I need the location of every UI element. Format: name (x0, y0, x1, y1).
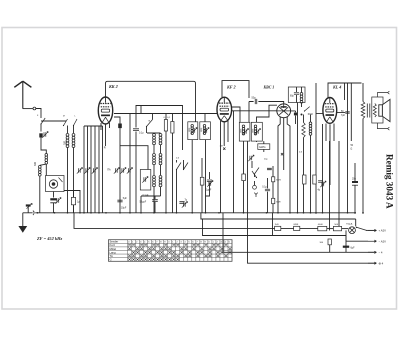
resistor 300 vertical (328, 239, 331, 245)
rail row3 y252.3 (223, 213, 375, 253)
row1 wire c (366, 229, 375, 231)
fixed capacitor antenna series (39, 133, 42, 137)
antenna A1 (14, 81, 31, 109)
wire GWG down (263, 141, 265, 152)
svg-text:⊕ 4: ⊕ 4 (379, 261, 384, 265)
svg-text:5000: 5000 (189, 128, 191, 132)
tube KBC1 (277, 104, 291, 118)
wire 60uF box stub (296, 87, 298, 103)
winding in output transformer (373, 104, 376, 118)
junction on ground bus x91 (90, 212, 92, 214)
trimmer capacitor CT4 (115, 168, 117, 172)
wire KK2 top rail (106, 81, 196, 122)
wire box side link (64, 191, 80, 214)
wire R2 leads (172, 114, 174, 214)
junction on ground bus x166 (165, 212, 167, 214)
capacitor 4uF (318, 181, 323, 183)
wire KL4 anode stubs (316, 112, 345, 115)
row2 wire (346, 240, 368, 242)
wire box to electrolytic (53, 192, 55, 198)
terminal -4 arrow (368, 251, 377, 253)
padder box (140, 170, 151, 191)
capacitor 0,1u det (265, 189, 270, 191)
wire KBC1 left bracket (257, 105, 278, 122)
capacitor speaker coupling (367, 104, 370, 118)
wire det v (252, 161, 255, 185)
switch S7 (252, 171, 257, 178)
tube KK2 (98, 97, 112, 124)
coil L1 antenna (38, 166, 41, 177)
junction on ground bus x290 (289, 212, 291, 214)
svg-text:R: R (104, 146, 106, 150)
wire r1100 leads (73, 190, 75, 213)
wire v x120 (114, 117, 120, 213)
svg-text:G: G (110, 258, 112, 262)
resistor GW8 on heater rail (294, 226, 300, 230)
wire 50u link (249, 102, 284, 105)
wire L5-L6 top link (147, 132, 161, 135)
coil L9 (153, 176, 156, 187)
wire L3 to ground bus (67, 148, 69, 214)
wire v x329 to row3 (329, 245, 331, 253)
wire S3 stub top (152, 114, 154, 120)
svg-text:6μF: 6μF (351, 247, 356, 249)
trimmer det (250, 156, 252, 160)
trimmer in T4 (256, 129, 258, 133)
svg-text:Lang: Lang (110, 250, 116, 254)
Y arrow under disc (254, 193, 257, 197)
wire band bus (41, 120, 66, 122)
svg-text:60μ: 60μ (290, 96, 295, 98)
wire osc link y145.7 (120, 146, 148, 170)
antenna plug connector (23, 108, 33, 110)
rail row2 feed (345, 236, 347, 242)
trimmer in T1 (193, 128, 195, 132)
switch S3 osc (147, 120, 153, 127)
wire L5 down (153, 145, 155, 153)
wire S4 drop (176, 170, 178, 214)
resistor cathode R11 (313, 175, 316, 184)
svg-text:1M: 1M (220, 146, 223, 148)
wire L8 down (160, 165, 162, 175)
switch S1 antenna (41, 118, 45, 124)
rail R3 y235.5 (203, 219, 347, 236)
coil T1 winding (191, 125, 194, 135)
svg-text:4040: 4040 (318, 224, 324, 226)
wire tuning section v2 (87, 126, 89, 213)
capacitor blob right of KBC1 (294, 113, 297, 116)
svg-text:− 4: − 4 (379, 251, 383, 255)
wire T2 bottom to bus (205, 140, 207, 213)
resistor R1 (164, 120, 167, 132)
x mark under KF2 (223, 148, 225, 150)
capacitor C20 (117, 200, 122, 202)
switch mains (357, 227, 367, 230)
capacitor grid KL4 (345, 112, 349, 113)
svg-text:10μF: 10μF (121, 208, 127, 210)
wire KF2 pins (221, 121, 229, 214)
wire v x339 (338, 141, 340, 229)
indicator disc inside box (49, 180, 57, 188)
wire KK2 anode bracket (136, 106, 183, 151)
junction on ground bus x99 (98, 212, 100, 214)
IF transformer can T1 (188, 122, 198, 140)
wire v x247.5 (247, 141, 249, 213)
wire elco-ground leads (27, 207, 29, 213)
wire L4 down (73, 148, 75, 214)
trimmer capacitor CT1 (78, 168, 80, 172)
capacitor C21 (152, 200, 158, 202)
wire S5 drop (177, 160, 184, 170)
coil L3 (66, 134, 69, 148)
tone indicator disc (253, 185, 257, 189)
svg-text:0,1μ: 0,1μ (262, 187, 267, 189)
svg-text:300: 300 (63, 140, 66, 145)
wire tuning section v3 (90, 126, 92, 213)
IF transformer can T3 (239, 122, 250, 141)
wire S3 down (146, 127, 148, 134)
table header digits (128, 242, 230, 244)
junction on ground bus x176.5 (176, 212, 178, 214)
coil L5 osc (153, 134, 156, 145)
trimmer capacitor CT6 (128, 168, 130, 172)
svg-text:50μ: 50μ (252, 97, 257, 100)
wire C2 to ground bus (53, 203, 55, 213)
coil T2 winding (203, 125, 206, 135)
trimmer capacitor CT2 (86, 168, 88, 172)
junction on ground bus x205.5 (205, 212, 207, 214)
junction on ground bus x219 (218, 212, 220, 214)
wire tuning section v1 (83, 126, 85, 213)
capacitor 8u det (267, 168, 272, 169)
svg-text:KL 4: KL 4 (332, 85, 341, 90)
svg-text:ZF = 452 kHz: ZF = 452 kHz (36, 236, 63, 241)
coil T3 winding (242, 125, 245, 135)
wire KK2 g rail2 (114, 106, 217, 114)
wire v x297.5 (297, 103, 299, 214)
wire KL4 pins (326, 124, 334, 186)
resistor GW40 (318, 226, 327, 230)
wire T1 bottom to bus (191, 140, 193, 213)
resistor 500 (333, 226, 341, 230)
svg-text:Ω: Ω (351, 148, 353, 150)
junction on ground bus x84 (83, 212, 85, 214)
wire det resistor leads (272, 166, 274, 213)
dial lamp (349, 227, 356, 234)
svg-text:0,1 0,1: 0,1 0,1 (164, 117, 171, 119)
coil L8 osc sec (159, 154, 162, 165)
junction on ground bus x120 (119, 212, 121, 214)
terminal +A2V arrow (368, 229, 377, 231)
wire KF2 anode long (232, 111, 277, 213)
resistor on T3 lead (242, 174, 246, 181)
wire L2 to wave box (45, 164, 47, 175)
trimmer capacitor antenna (44, 132, 46, 136)
junction on ground bus x316 (315, 212, 317, 214)
svg-text:5μF: 5μF (123, 198, 128, 200)
coil L7 osc sec (153, 154, 156, 165)
wire C8 leads (206, 172, 210, 196)
electrolytic capacitor 6uF (343, 246, 349, 248)
capacitor 60uF top (294, 93, 299, 95)
wire S1 down (40, 124, 42, 132)
wire T3 bottom (243, 141, 245, 213)
resistor det 2 (272, 198, 275, 203)
tube KF2 (217, 97, 232, 122)
ground bus (23, 212, 356, 214)
resistor R volume (302, 123, 305, 138)
svg-text:− A2V: − A2V (379, 239, 387, 243)
junction on ground bus x54.5 (54, 212, 56, 214)
svg-text:300: 300 (34, 161, 37, 166)
trimmer capacitor CT5 (122, 168, 124, 172)
svg-text:Mittel: Mittel (110, 247, 117, 251)
svg-text:+ A2V: + A2V (379, 229, 387, 233)
box GWG (258, 144, 270, 150)
svg-text:750μA: 750μA (346, 223, 353, 226)
wire tuning section v5 (98, 126, 100, 213)
wire R volume leads (303, 115, 305, 214)
ground bus break connector (33, 211, 36, 215)
wire tuning section v4 (94, 126, 96, 213)
wire antenna to band switch (36, 109, 41, 119)
ground symbol (22, 213, 24, 226)
wire v x316 (315, 83, 317, 214)
junction on ground bus x67.5 (67, 212, 69, 214)
diode/blocking capacitor on x120 (118, 124, 122, 129)
junction on ground bus x278 (277, 212, 279, 214)
wire choke leads (301, 87, 303, 107)
svg-text:Kurz: Kurz (110, 243, 116, 247)
rail R1 y219 (201, 213, 356, 227)
coil L4 (72, 134, 75, 148)
wire v x130 (129, 114, 131, 214)
wire C5 down (135, 132, 137, 214)
junction on ground bus x243.5 (243, 212, 245, 214)
coil choke right (300, 93, 303, 104)
wire L6 down (160, 145, 162, 153)
capacitor C8 (207, 180, 212, 182)
box with 60uF capacitor (288, 87, 305, 103)
switch S6 (255, 168, 260, 175)
resistor R2 (171, 122, 174, 134)
wire x249 down (248, 102, 250, 123)
junction on ground bus x80 (79, 212, 81, 214)
svg-text:5000: 5000 (241, 129, 243, 133)
switch S4 (177, 163, 182, 170)
coil T4 winding (254, 125, 257, 135)
loudspeaker LS (379, 99, 390, 121)
trimmer in T2 (205, 128, 207, 132)
wire v x346 lower (345, 230, 347, 252)
svg-text:KK 2: KK 2 (108, 84, 118, 89)
svg-text:Sender: Sender (110, 240, 119, 244)
rail row4 y263.2 (248, 213, 375, 263)
svg-text:GWG: GWG (276, 180, 281, 182)
coil L6 osc (159, 134, 162, 145)
svg-text:50μμF: 50μμF (140, 202, 147, 204)
switch S5 (184, 163, 189, 170)
coil L11 (309, 122, 312, 135)
svg-text:1kΩ: 1kΩ (275, 224, 279, 226)
svg-text:5000: 5000 (253, 129, 255, 133)
resistor 1/100 (71, 197, 75, 204)
switch S2a (64, 119, 68, 126)
coil L10 (159, 176, 162, 187)
wire S2a down (67, 126, 69, 134)
wire R3 leads (201, 158, 203, 213)
trimmer 7u arrow (183, 202, 185, 206)
junction on ground bus x37.5 (37, 212, 39, 214)
junction on ground bus x141 (140, 212, 142, 214)
junction on ground bus x355 (354, 212, 356, 214)
electrolytic capacitor near ground (26, 204, 31, 206)
x mark on KBC1 pin (281, 153, 283, 155)
table X marks (128, 244, 231, 261)
resistor speaker series (361, 102, 365, 119)
junction on ground bus x303.5 (303, 212, 305, 214)
tube KL4 (323, 98, 337, 124)
band switch table (109, 240, 233, 262)
svg-text:Remig 3043 A: Remig 3043 A (385, 154, 395, 209)
rail heater y228.6 (74, 213, 318, 229)
switch pivot (356, 227, 357, 228)
trimmer 4uF arrow (322, 182, 324, 186)
svg-text:0,1μ: 0,1μ (139, 133, 144, 135)
svg-text:KF 2: KF 2 (226, 84, 236, 89)
svg-text:ITA: ITA (107, 169, 111, 172)
wire L11 leads (310, 115, 312, 214)
electrolytic capacitor 20uF (352, 181, 358, 183)
wire speaker v (362, 83, 364, 214)
junction on ground bus x347.5 (347, 212, 349, 214)
svg-text:20μ: 20μ (352, 179, 357, 181)
junction on ground bus x297.5 (297, 212, 299, 214)
trimmer in T3 (244, 129, 246, 133)
electrolytic capacitor C2 (50, 198, 56, 200)
wire KBC1 pins (278, 117, 290, 213)
wire v x322 (322, 124, 324, 213)
wire det caps (267, 178, 269, 213)
table row labels (110, 240, 119, 262)
svg-text:KBC 1: KBC 1 (263, 86, 275, 90)
coil L2 antenna (45, 154, 48, 165)
svg-text:5000: 5000 (201, 128, 203, 132)
wire v x329 row1 (329, 141, 331, 231)
resistor cathode R10 (303, 175, 306, 184)
svg-text:0,1μF: 0,1μF (143, 195, 150, 197)
wire KF2 top bracket (222, 81, 249, 98)
trimmer in padder box (144, 177, 146, 181)
wire T2 top to KF2 (204, 114, 206, 122)
wire speaker bottom lead (377, 123, 389, 130)
svg-text:GW8: GW8 (293, 224, 299, 226)
row1 wire a (327, 228, 334, 230)
output transformer box (372, 97, 383, 123)
svg-text:GWG: GWG (259, 145, 265, 149)
wire 20uF vertical (354, 163, 356, 214)
wire L2-L1 jog (40, 164, 47, 165)
junction on ground bus x310.5 (310, 212, 312, 214)
capacitor C5 (133, 129, 139, 131)
wire KL4 grid feeds (345, 83, 352, 213)
terminal -A2V arrow (368, 240, 377, 242)
wire to antenna coils (41, 138, 46, 154)
svg-text:TA: TA (110, 254, 113, 258)
junction on ground bus x266.5 (266, 212, 268, 214)
wire KL4 top rail (328, 83, 362, 98)
wire C21 v (154, 196, 156, 213)
trimmer on C2 (57, 198, 59, 202)
resistor R3 vertical (200, 177, 204, 185)
resistor det (272, 177, 275, 182)
switch S2b (74, 119, 78, 126)
junction on ground bus x192.2 (191, 212, 193, 214)
IF transformer can T4 (251, 122, 262, 141)
wire L10 to bus (141, 187, 161, 213)
svg-text:7μF: 7μF (341, 115, 346, 117)
trimmer capacitor CT3 (93, 168, 95, 172)
wire KBC1 right stub (291, 111, 296, 124)
wire R1 leads (165, 114, 167, 214)
wire S2b down (73, 126, 75, 134)
junction on ground bus x106 (105, 212, 107, 214)
wire L9 to bus (153, 187, 155, 213)
wire gang top link (84, 125, 103, 127)
wave-band switch box (46, 176, 65, 192)
wire KK2 pins down (101, 123, 110, 146)
wire L1 to ground bus (39, 176, 41, 213)
capacitor 7u (179, 202, 184, 204)
junction on ground bus x363 (362, 212, 364, 214)
trimmer C8 arrow (209, 181, 211, 185)
junction on ground bus x322.5 (322, 212, 324, 214)
wire T4 bottom (256, 140, 258, 143)
capacitor 50u (255, 99, 257, 104)
resistor 1k on heater rail (275, 226, 281, 230)
junction on ground bus x154 (153, 212, 155, 214)
svg-text:1μμF: 1μμF (206, 190, 212, 192)
wire L7 down (153, 165, 155, 175)
wire tuning section v6 (102, 126, 104, 213)
switch S8 (305, 107, 310, 111)
junction on ground bus x130 (129, 212, 131, 214)
terminal +4 arrow (368, 262, 377, 264)
junction KBC1 out (301, 114, 303, 116)
wire speaker top lead (377, 91, 389, 97)
IF transformer can T2 (200, 122, 211, 140)
row1 wire b (342, 228, 349, 230)
wire KF2 anode out (231, 107, 240, 122)
